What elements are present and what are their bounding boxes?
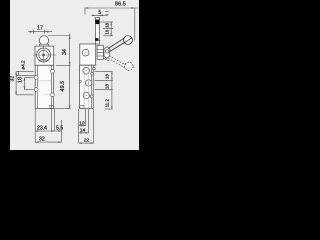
svg-text:23.4: 23.4 <box>37 126 47 132</box>
body circle 2 <box>85 80 91 86</box>
dim 14 line <box>79 132 89 134</box>
plunger seat line <box>39 59 48 61</box>
svg-text:32: 32 <box>9 76 15 82</box>
svg-text:34: 34 <box>62 49 68 55</box>
roller bracket <box>39 44 48 46</box>
dim 5 line <box>92 14 108 16</box>
top right ext y35.8 <box>103 35 113 37</box>
dim 10 line <box>79 125 86 127</box>
dim o4.2 leader line <box>16 74 35 76</box>
svg-text:5.5: 5.5 <box>56 126 63 132</box>
center dot body c2 <box>88 83 89 84</box>
roller (front) <box>39 36 48 45</box>
ext 86.5 left <box>84 8 86 15</box>
body circle 1 <box>83 68 90 75</box>
dim 18 line vertical <box>23 78 25 90</box>
ext 86.5 right <box>134 8 136 41</box>
bracket bar <box>96 18 100 45</box>
port dot left <box>79 80 81 82</box>
right ext from body bottom <box>54 107 71 109</box>
dashed roller tick <box>133 66 135 68</box>
top right ext y28.6 <box>103 28 113 30</box>
small tick right of 5 <box>105 14 108 16</box>
bottom ext B notch left <box>50 109 52 132</box>
svg-text:17: 17 <box>37 26 43 32</box>
center dot head side circle <box>85 52 86 53</box>
bracket screw upper (black) <box>95 20 99 25</box>
svg-text:18: 18 <box>105 22 110 27</box>
body bottom notch (side) <box>80 105 84 108</box>
right ext y109 <box>105 108 113 110</box>
svg-text:10: 10 <box>79 120 85 126</box>
left ext line right-port lower <box>16 94 33 96</box>
side port small lower <box>90 95 93 98</box>
faint bore line left body <box>38 80 52 82</box>
top right ext y22 <box>100 21 113 23</box>
svg-text:86.5: 86.5 <box>115 2 126 8</box>
gray drawing panel <box>10 0 139 150</box>
svg-text:32: 32 <box>39 136 45 142</box>
center dot big circle <box>42 54 44 56</box>
head crosshair horizontal <box>33 54 56 56</box>
lever arm solid <box>108 37 125 48</box>
body (side) <box>80 65 94 108</box>
body inner line right <box>90 65 92 108</box>
body block <box>35 65 53 108</box>
bottom ext C <box>53 109 55 132</box>
dim 34 line <box>69 34 71 66</box>
bottom right ext x93.5 <box>93 109 95 144</box>
dim 32 line vertical <box>15 71 17 94</box>
dim 16 chain <box>110 29 112 36</box>
lever clamp block <box>97 45 103 59</box>
left ext line left-port lower <box>24 89 33 91</box>
lever arm dashed <box>108 56 133 71</box>
svg-text:18: 18 <box>17 77 23 83</box>
svg-text:18: 18 <box>104 84 109 89</box>
pivot bolt circle <box>106 50 109 53</box>
bottom right ext x78.6 <box>78 109 80 144</box>
body inner wall left <box>36 65 38 108</box>
svg-text:14: 14 <box>80 128 86 134</box>
svg-text:16: 16 <box>105 29 110 34</box>
bracket step line <box>95 40 100 42</box>
right ext y80.2 <box>95 79 113 81</box>
head inner circle <box>39 50 49 60</box>
port left lower <box>34 88 38 92</box>
head crosshair vertical <box>43 47 45 63</box>
bottom right ext x88.4 <box>87 109 89 133</box>
svg-text:49.5: 49.5 <box>60 81 66 92</box>
bottom ext D <box>60 120 62 143</box>
dim 17 line <box>28 31 52 33</box>
head big circle <box>37 48 51 62</box>
head block (side) <box>80 44 96 65</box>
side port small upper <box>91 72 94 75</box>
dim 49.5 line <box>69 65 71 108</box>
clamp stub line <box>103 58 109 61</box>
right ext from roller top <box>48 35 71 37</box>
right chain dim line <box>111 72 113 109</box>
faint bore lines right body <box>83 65 85 108</box>
dim 86.5 line <box>84 7 139 9</box>
head block <box>35 46 54 65</box>
side port top small <box>93 67 96 70</box>
right ext y89 <box>95 88 113 90</box>
dim 17 arrows <box>30 31 34 33</box>
background black bars <box>0 0 150 150</box>
svg-text:18: 18 <box>104 74 109 79</box>
dim 23.4/5.5 line <box>35 130 61 132</box>
pivot hex nut <box>104 47 110 59</box>
right ext y71.5 <box>95 71 113 73</box>
port right upper <box>51 69 55 73</box>
body circle 3 <box>83 92 89 98</box>
left ext line right-port upper <box>16 70 33 72</box>
center dot body c3 <box>86 95 87 96</box>
dim 22 line <box>79 142 94 144</box>
svg-text:22: 22 <box>84 138 90 144</box>
bracket screw lower (black) <box>95 38 98 40</box>
body inner wall right <box>51 65 53 108</box>
dim 32 bottom line <box>35 141 61 143</box>
roller dashed <box>125 62 133 70</box>
roller solid <box>124 36 133 45</box>
bottom ext A body left <box>34 109 36 143</box>
svg-text:5: 5 <box>98 10 101 16</box>
center dot body c1 <box>86 70 87 71</box>
left ext line left-port upper <box>24 77 33 79</box>
small dash upper right of 5 <box>105 10 108 12</box>
right ext from head bottom <box>56 64 71 66</box>
dim 17 extension ticks <box>33 30 35 34</box>
head circle (side) <box>82 49 89 56</box>
bottom right ext x85.6 <box>85 109 87 126</box>
port right lower <box>51 93 55 97</box>
svg-text:11.2: 11.2 <box>105 99 110 108</box>
dim 18 top chain <box>110 22 112 29</box>
bottom notch <box>50 106 54 109</box>
roller chord <box>124 38 132 44</box>
svg-text:ø4.2: ø4.2 <box>21 60 26 70</box>
port left upper <box>34 76 38 80</box>
